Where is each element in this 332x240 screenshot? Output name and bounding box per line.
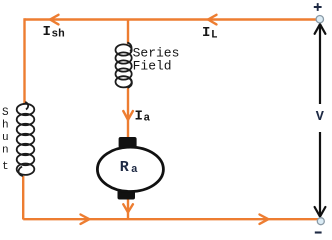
wire: middle branch (series field to armature top brush) (127, 87, 129, 140)
wire: top horizontal (25, 18, 317, 20)
arrow Ish (left-pointing on top wire) (50, 15, 59, 25)
armature: bottom brush (118, 190, 136, 200)
armature: top brush (119, 137, 137, 148)
coil: series field L1 (116, 43, 132, 88)
V source line lower segment with down arrow (319, 132, 321, 217)
arrow IL (left-pointing on top wire) (208, 15, 217, 25)
armature circle Ra (97, 147, 163, 191)
label + (314, 3, 322, 11)
label - (315, 231, 322, 233)
svg-text:h: h (2, 120, 9, 132)
wire: left vertical lower (from shunt coil) (22, 176, 24, 220)
svg-text:Field: Field (133, 59, 172, 74)
wire: middle branch lower (armature bottom brush to bottom wire) (127, 198, 129, 219)
svg-text:I: I (135, 109, 143, 125)
arrow (down-pointing, below armature) (123, 204, 133, 212)
terminal node + (top right) (316, 16, 323, 23)
svg-text:sh: sh (52, 29, 65, 41)
svg-text:S: S (2, 107, 9, 119)
wire: bottom horizontal (23, 218, 318, 220)
wire: middle branch upper (top wire to series field) (127, 20, 129, 45)
svg-text:n: n (2, 145, 9, 157)
svg-text:t: t (2, 161, 9, 173)
terminal node - (bottom right) (317, 218, 324, 225)
svg-text:a: a (144, 113, 151, 125)
svg-text:L: L (211, 30, 218, 42)
svg-text:I: I (202, 25, 210, 41)
coil: shunt field L2 (17, 102, 35, 176)
wire: left vertical upper (to shunt coil) (23, 18, 25, 103)
arrow (right-pointing on bottom wire, left) (81, 215, 90, 224)
arrow (right-pointing on bottom wire, right) (260, 215, 269, 224)
svg-text:I: I (43, 24, 51, 40)
V source line upper segment with up arrow (319, 24, 321, 104)
svg-text:R: R (120, 159, 129, 176)
svg-text:a: a (131, 164, 138, 176)
svg-text:u: u (2, 132, 9, 144)
arrow Ia (down-pointing on middle branch) (123, 111, 133, 120)
svg-text:V: V (316, 110, 325, 125)
